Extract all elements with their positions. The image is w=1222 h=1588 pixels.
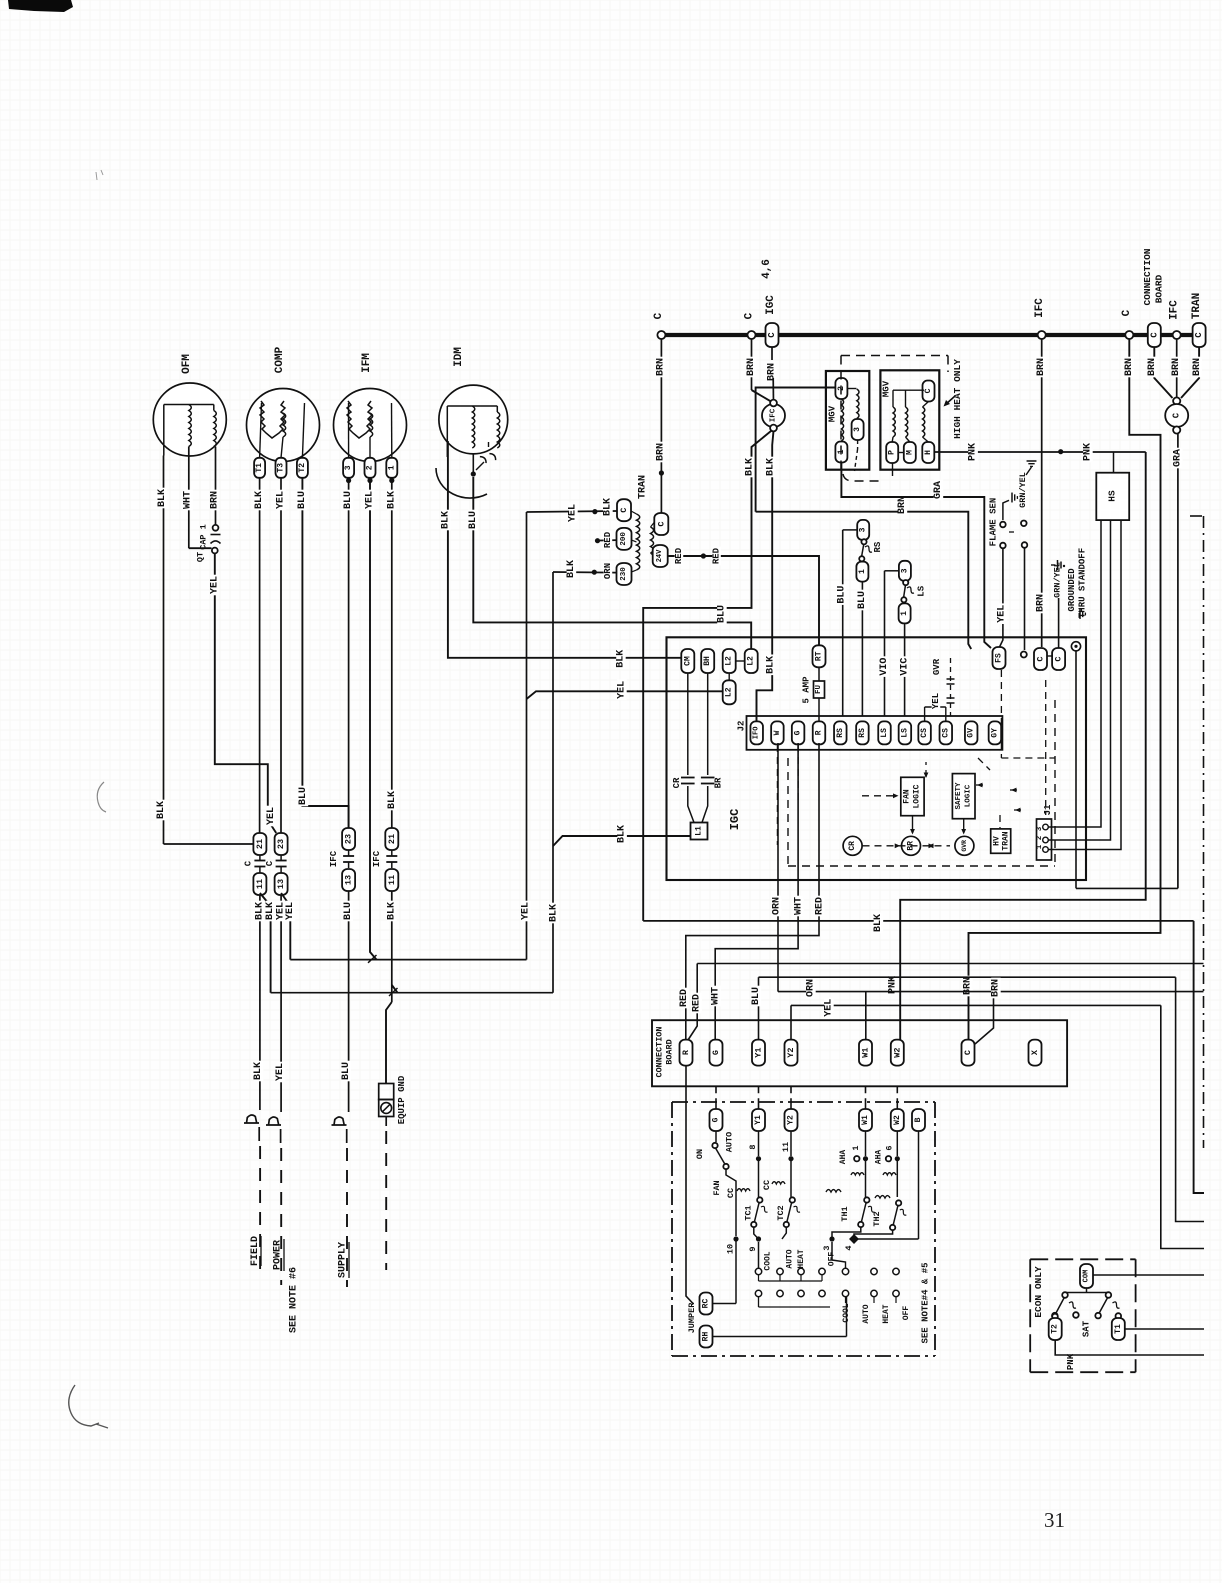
svg-text:LS: LS (916, 585, 926, 596)
terminal W1 of thermostat (859, 1109, 872, 1131)
svg-text:BLU: BLU (298, 787, 309, 805)
svg-text:CONNECTION: CONNECTION (1142, 248, 1153, 305)
bus terminal IFC (node, x=1176.7) (1173, 331, 1181, 339)
terminal 1 of MGV1 (835, 442, 847, 463)
terminal R of J2 (813, 721, 826, 744)
relay coil IFC (circle) (762, 404, 785, 427)
svg-text:RT: RT (815, 651, 824, 661)
svg-text:THRU STANDOFF: THRU STANDOFF (1078, 548, 1088, 618)
svg-text:C: C (619, 508, 629, 513)
svg-text:BLU: BLU (857, 591, 868, 609)
svg-text:YEL: YEL (365, 491, 376, 509)
svg-text:HEAT: HEAT (797, 1249, 806, 1268)
svg-text:3: 3 (859, 527, 868, 532)
svg-text:AUTO: AUTO (786, 1249, 795, 1268)
svg-text:B: B (914, 1117, 923, 1122)
svg-text:QT: QT (196, 552, 206, 562)
svg-text:11: 11 (387, 875, 397, 885)
svg-text:RED: RED (815, 897, 826, 915)
svg-text:BLK: BLK (253, 1062, 264, 1080)
svg-text:PNK: PNK (1083, 443, 1094, 461)
thermostat dashed-dot box (672, 1101, 935, 1103)
transformer C (circle symbol) (1165, 404, 1188, 427)
svg-text:C: C (656, 521, 666, 526)
economizer dashed box ECON ONLY (1030, 1258, 1135, 1260)
capacitor BR inside IGC (707, 673, 709, 775)
svg-text:BLK: BLK (386, 902, 397, 920)
svg-text:CS: CS (920, 728, 929, 738)
terminal TRAN C on bus (1193, 323, 1206, 347)
svg-text:C: C (1036, 656, 1046, 661)
SAT switch right (1106, 1292, 1112, 1298)
svg-text:IGC: IGC (728, 809, 742, 831)
svg-text:CC: CC (726, 1188, 736, 1198)
terminal GV of J2 (965, 721, 978, 744)
wire BRN from bus to IGC C pills (1041, 339, 1043, 647)
connector J1 of IGC (1037, 819, 1052, 860)
svg-text:TRAN: TRAN (1002, 831, 1011, 850)
wire RED second to board R and boundary (697, 963, 1203, 965)
terminal 13 (stack C) (342, 869, 355, 891)
svg-text:L1: L1 (695, 826, 704, 836)
wire GRA from standoff to transformer C (1075, 651, 1077, 888)
svg-text:RED: RED (712, 547, 722, 564)
svg-text:11: 11 (255, 879, 265, 889)
wire BLK from IFC to bypass around IGC (643, 431, 771, 921)
svg-text:BLK: BLK (440, 511, 451, 529)
terminal W of J2 (771, 721, 784, 744)
wire from COM to boundary (1093, 1274, 1204, 1276)
wire GRA from MGV1 to IGC GY (841, 463, 991, 649)
svg-text:ORN: ORN (603, 563, 613, 579)
svg-text:OFF: OFF (902, 1306, 911, 1321)
terminal FS of IGC (993, 647, 1006, 669)
svg-text:W1: W1 (861, 1115, 870, 1125)
terminal C connection board on bus (1148, 323, 1161, 347)
terminal 3 of IFM (343, 458, 354, 478)
svg-text:T3: T3 (277, 463, 286, 473)
terminal CS of J2 (940, 721, 953, 744)
wire BRN from MGV1 to IGC GV (756, 388, 836, 512)
svg-text:G: G (794, 730, 803, 735)
terminal Y1 of connection board (752, 1040, 765, 1066)
wire BRN from bus to transformer junction (1176, 339, 1178, 397)
wire BLU from IFM 3 down to stack C (348, 483, 350, 828)
wire YEL from stack B to power (dashed below nut) (280, 895, 282, 1112)
svg-text:YEL: YEL (824, 999, 835, 1017)
wires J1 to HS igniter (1048, 520, 1101, 827)
svg-text:31: 31 (1044, 1508, 1065, 1532)
terminal BH of IGC (701, 649, 714, 673)
svg-text:J2: J2 (737, 721, 747, 732)
svg-text:BLU: BLU (717, 605, 728, 623)
wire BRN from OFM to CAP 1 (215, 447, 217, 525)
wire YEL riser to TRAN primary (526, 512, 528, 960)
svg-text:TRAN: TRAN (1191, 293, 1203, 319)
wire BLK/YEL to TRAN primary C (527, 511, 618, 512)
connection board box (652, 1020, 1067, 1086)
svg-text:GV: GV (967, 728, 976, 738)
wire YEL from CAP 1 to stack B (215, 554, 276, 834)
terminal M of MGV2 (904, 442, 916, 463)
MGV1 aux winding (848, 388, 857, 390)
svg-text:24V: 24V (656, 549, 664, 562)
svg-text:YEL: YEL (931, 693, 941, 709)
svg-text:GRN/YEL: GRN/YEL (1018, 472, 1028, 508)
terminal T2 of economizer (1052, 1314, 1058, 1320)
terminal X of connection board (1029, 1040, 1042, 1066)
grounded thru standoff (1071, 642, 1080, 651)
terminal 11 (stack D) (385, 869, 398, 891)
wire YEL from IFM 2 to yellow net (370, 483, 377, 960)
svg-text:YEL: YEL (617, 681, 628, 699)
terminal Y2 of thermostat (785, 1109, 798, 1131)
wire GRN/YEL with standoff mark (1058, 598, 1060, 648)
svg-text:OFM: OFM (181, 354, 193, 374)
svg-text:21: 21 (387, 834, 397, 844)
terminal T1 of COMP (254, 458, 265, 478)
svg-text:BRN: BRN (1124, 358, 1135, 376)
svg-text:PNK: PNK (1066, 1353, 1076, 1370)
relay GVR inside IGC (955, 836, 974, 855)
gas valve MGV box 1 (826, 371, 869, 470)
svg-text:C: C (1121, 309, 1133, 316)
field wiring boundary dash-dot (1190, 515, 1204, 517)
svg-text:BLU: BLU (297, 491, 308, 509)
wire PNK stub to HS (1113, 452, 1115, 473)
svg-text:BRN: BRN (991, 979, 1002, 997)
svg-text:YEL: YEL (285, 902, 296, 920)
dashed line from W terminal (776, 745, 778, 845)
svg-text:C: C (924, 388, 933, 393)
svg-text:RED: RED (679, 989, 690, 1007)
svg-text:1: 1 (858, 569, 867, 574)
svg-text:L2: L2 (747, 656, 756, 666)
svg-text:C: C (653, 312, 665, 319)
wire ORN branch to W1 (865, 992, 867, 1040)
svg-text:RS: RS (836, 728, 845, 738)
terminal CM of IGC (681, 649, 694, 673)
wire BLK from COMP T1 to stack A (259, 478, 261, 833)
wire BLU from IDM to IGC L2 (473, 477, 751, 649)
svg-text:ON: ON (695, 1149, 705, 1159)
terminal C secondary of TRAN (654, 513, 668, 535)
wire YEL from stack B to yellow net (281, 893, 290, 960)
svg-text:BLU: BLU (341, 1062, 352, 1080)
svg-text:TH1: TH1 (840, 1206, 850, 1221)
svg-text:BLK: BLK (603, 498, 614, 516)
svg-text:W1: W1 (861, 1047, 871, 1057)
svg-text:SAFETY: SAFETY (955, 782, 963, 810)
terminal L1 of IGC (691, 823, 708, 840)
svg-text:Y1: Y1 (754, 1047, 764, 1057)
svg-text:C: C (1172, 412, 1182, 418)
svg-text:RED: RED (603, 531, 613, 548)
svg-text:9: 9 (748, 1246, 758, 1251)
svg-text:T1: T1 (1114, 1324, 1123, 1334)
wire YEL from COMP T3 to stack B (280, 478, 282, 833)
svg-text:BLK: BLK (745, 458, 756, 476)
dashed enclosure around gas valves (841, 355, 948, 357)
svg-text:CAP 1: CAP 1 (199, 524, 209, 550)
svg-text:2: 2 (366, 465, 375, 470)
connector J2 of IGC (747, 716, 1003, 750)
terminal 2 of MGV1 (835, 378, 847, 399)
svg-text:BLK: BLK (873, 914, 884, 932)
svg-text:SUPPLY: SUPPLY (338, 1242, 349, 1278)
svg-text:AUTO: AUTO (862, 1304, 871, 1323)
svg-text:4,6: 4,6 (761, 259, 773, 279)
terminal COM of economizer (1080, 1264, 1093, 1288)
svg-text:C: C (963, 1050, 973, 1055)
svg-text:L2: L2 (725, 656, 734, 666)
terminal 2 of IFM (365, 458, 376, 478)
svg-text:11: 11 (781, 1142, 791, 1152)
svg-text:BLK: BLK (254, 491, 265, 509)
terminal 230 of TRAN (617, 563, 632, 585)
svg-text:Y2: Y2 (787, 1115, 796, 1125)
motor COMP (circle) (247, 389, 320, 462)
svg-text:L2: L2 (725, 687, 734, 697)
svg-text:BOARD: BOARD (665, 1039, 675, 1065)
dashed wire below equip gnd (385, 1117, 387, 1127)
terminal G of connection board (710, 1040, 723, 1066)
svg-text:IFO: IFO (753, 727, 761, 740)
svg-text:BH: BH (703, 656, 712, 666)
capacitor CAP 1 / QT switch (213, 525, 219, 531)
motor OFM (circle) (153, 383, 226, 456)
relay BR inside IGC (902, 836, 921, 855)
svg-text:FU: FU (815, 685, 823, 695)
wire BRN from bus to TRAN secondary C (660, 339, 662, 519)
svg-text:GVR: GVR (932, 658, 942, 675)
wire BLK from IFM 1 to stack D (391, 483, 393, 828)
terminal T1 of economizer (1116, 1313, 1122, 1319)
terminal W2 of connection board (891, 1040, 904, 1066)
svg-text:C: C (1054, 656, 1064, 661)
equipment ground terminal block (379, 1084, 394, 1100)
svg-text:WHT: WHT (794, 897, 805, 915)
terminal Y1 of thermostat (752, 1109, 765, 1131)
svg-text:P: P (888, 450, 897, 455)
svg-text:SAT: SAT (1082, 1320, 1092, 1337)
wire BLU from stack C to supply (dashed below nut) (348, 891, 350, 1112)
svg-text:C: C (265, 860, 275, 866)
wire BLK net (stacks to transformer) (271, 992, 553, 994)
wire YEL from flame sensor to IGC FS (1000, 548, 1003, 647)
terminal RS of J2 (856, 721, 869, 744)
bus terminal C (node, x=661) (657, 331, 665, 339)
terminal T2 of COMP (297, 458, 308, 478)
svg-text:SEE NOTE #6: SEE NOTE #6 (289, 1267, 300, 1333)
svg-text:LOGIC: LOGIC (965, 784, 973, 807)
terminal 1 of IFM (386, 458, 397, 478)
terminal G of thermostat (710, 1109, 723, 1131)
svg-text:BLU: BLU (836, 586, 847, 604)
SAT switch left (1062, 1292, 1068, 1298)
svg-text:8: 8 (748, 1144, 758, 1149)
svg-text:BR: BR (714, 777, 724, 788)
dashed arrows of logic (863, 845, 951, 847)
transformer common junction circle (1173, 397, 1180, 404)
svg-text:HS: HS (1107, 490, 1118, 502)
wire YEL net (stacks to transformer) (290, 959, 526, 961)
svg-text:FAN: FAN (903, 789, 912, 804)
svg-text:T1: T1 (255, 463, 264, 473)
svg-text:13: 13 (344, 875, 354, 885)
svg-text:ORN: ORN (772, 897, 783, 915)
svg-text:4: 4 (844, 1245, 854, 1250)
svg-text:ECON ONLY: ECON ONLY (1033, 1266, 1044, 1318)
wire BLK riser to TRAN primary (552, 572, 554, 993)
svg-text:BLK: BLK (549, 904, 560, 922)
terminal W1 of connection board (859, 1040, 872, 1066)
terminal C primary of TRAN (617, 499, 631, 521)
svg-text:YEL: YEL (997, 605, 1008, 623)
wire BLK long bypass to field boundary (643, 920, 1193, 922)
wire WHT from IGC G to board G (715, 743, 798, 1040)
svg-text:BRN: BRN (656, 358, 667, 376)
swoosh arc under IDM (436, 468, 487, 498)
terminal 23 (stack C) (342, 828, 355, 850)
svg-text:BLK: BLK (157, 489, 168, 507)
svg-text:230: 230 (620, 567, 628, 581)
wire VIO from LS to IGC LS terminal (884, 571, 886, 716)
svg-text:1: 1 (851, 1145, 861, 1150)
svg-text:LS: LS (880, 728, 889, 738)
heat column W2 switch TH2 (896, 1131, 898, 1156)
svg-text:GVR: GVR (961, 840, 968, 852)
wire BRN from IGC C pill down to IFC (771, 347, 773, 360)
svg-text:IGC: IGC (765, 295, 777, 315)
terminal L2 of IGC (row1 a) (723, 649, 736, 673)
svg-text:3: 3 (344, 465, 353, 470)
terminal C pair on IGC top (1034, 648, 1047, 670)
svg-text:BLK: BLK (766, 458, 777, 476)
capacitor CR inside IGC (687, 673, 689, 775)
wire BRN from bus to IFC coil (751, 339, 753, 390)
svg-text:POWER: POWER (273, 1240, 284, 1270)
svg-text:CM: CM (683, 656, 692, 666)
svg-text:RC: RC (702, 1299, 711, 1309)
wire PNK from T2 (1055, 1340, 1204, 1355)
svg-text:C: C (767, 332, 777, 338)
svg-text:IFC: IFC (770, 408, 778, 422)
svg-text:COOL: COOL (764, 1251, 773, 1270)
svg-text:LOGIC: LOGIC (913, 784, 922, 808)
svg-text:FLAME SEN: FLAME SEN (989, 498, 999, 547)
svg-text:BLK: BLK (156, 801, 167, 819)
svg-text:1: 1 (900, 611, 909, 616)
motor IDM (circle) (439, 385, 508, 454)
wire BLK/ORN to TRAN primary 230 (553, 571, 617, 574)
wire VIC from LS to IGC LS terminal (904, 624, 906, 716)
svg-text:YEL: YEL (266, 807, 277, 825)
HV TRAN block (991, 829, 1011, 853)
IGC internal logic dashed box (787, 758, 789, 866)
scan artifact marks top left (96, 170, 103, 180)
wire BLU from COMP T2 to stack C (302, 478, 348, 828)
svg-text:BRN: BRN (746, 358, 757, 376)
svg-text:ORN: ORN (806, 979, 817, 997)
svg-text:R: R (681, 1049, 691, 1055)
capacitor C (stack B) (280, 855, 282, 861)
svg-text:FAN: FAN (712, 1180, 722, 1195)
svg-text:21: 21 (255, 839, 265, 849)
svg-text:YEL: YEL (209, 576, 220, 594)
svg-text:R: R (815, 730, 824, 735)
svg-text:G: G (712, 1117, 721, 1122)
svg-text:BLU: BLU (751, 987, 762, 1005)
terminal G of J2 (792, 721, 805, 744)
svg-text:BLK: BLK (386, 491, 397, 509)
svg-text:Y1: Y1 (754, 1115, 763, 1125)
terminal LS of J2 (899, 721, 912, 744)
svg-text:BLK: BLK (265, 902, 276, 920)
svg-text:3: 3 (853, 427, 862, 432)
run capacitor of IDM (479, 450, 498, 465)
terminal P of MGV2 (886, 442, 898, 463)
svg-text:JUMPER: JUMPER (687, 1302, 697, 1334)
terminal L2 of IGC (row2) (723, 680, 736, 704)
svg-text:TC1: TC1 (744, 1205, 754, 1220)
wire BLK from IFC to IGC IFO terminal (757, 431, 774, 722)
svg-text:X: X (1030, 1049, 1040, 1055)
relay CR inside IGC (843, 836, 862, 855)
bus terminal IFC (node, x=1041.7) (1038, 331, 1046, 339)
svg-text:YEL: YEL (521, 902, 532, 920)
wire RED from IGC R to board R (686, 743, 819, 1040)
svg-text:AUTO: AUTO (725, 1132, 735, 1152)
svg-text:SEE NOTE#4 & #5: SEE NOTE#4 & #5 (921, 1262, 931, 1343)
dashed drops from board to thermostat (715, 1086, 717, 1104)
terminal RT of IGC (813, 645, 826, 667)
svg-text:RS: RS (873, 541, 883, 552)
svg-text:BOARD: BOARD (1154, 274, 1165, 303)
svg-text:BLU: BLU (343, 491, 354, 509)
wire BLK from IDM to IGC CM (448, 441, 682, 658)
svg-text:G: G (711, 1050, 721, 1055)
wire BLU from RS to IGC RS terminals (842, 530, 844, 716)
svg-text:BLU: BLU (343, 902, 354, 920)
terminal T3 of COMP (276, 458, 287, 478)
svg-text:CC: CC (762, 1180, 772, 1190)
svg-text:BLU: BLU (468, 511, 479, 529)
MGV1 main winding (841, 399, 843, 441)
gas valve MGV box 2 (high heat) (880, 370, 939, 469)
terminal 3 of MGV1 (852, 419, 864, 440)
wire GRA from transformer C down right side (1177, 434, 1179, 889)
fan logic block (901, 777, 924, 815)
svg-text:BRN: BRN (1036, 594, 1047, 612)
svg-text:C: C (1149, 332, 1159, 338)
terminal W2 of thermostat (891, 1109, 904, 1131)
terminal C of connection board (962, 1040, 975, 1066)
wire RED stub at 200 tap (600, 539, 617, 541)
svg-text:W: W (773, 730, 782, 735)
wire WHT from OFM to capacitor CAP 1 (188, 447, 190, 549)
svg-text:BRN: BRN (767, 363, 778, 381)
svg-text:200: 200 (620, 532, 628, 546)
terminal 24V of TRAN (653, 545, 668, 567)
svg-text:J1: J1 (1043, 804, 1053, 815)
svg-text:BRN: BRN (1036, 358, 1047, 376)
svg-text:IFC: IFC (329, 850, 339, 867)
wire ORN from IGC W to W1 and boundary (777, 743, 779, 992)
roll-out switch RS (857, 520, 869, 540)
svg-text:TC2: TC2 (776, 1205, 786, 1220)
terminal C of MGV2 (923, 381, 935, 402)
